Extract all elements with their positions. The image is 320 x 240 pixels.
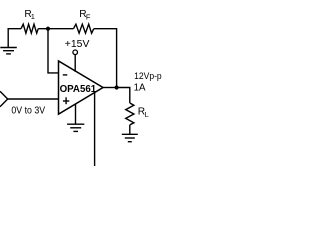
svg-text:12Vp-p: 12Vp-p bbox=[134, 71, 162, 81]
svg-text:F: F bbox=[86, 12, 91, 21]
svg-text:1A: 1A bbox=[134, 83, 146, 94]
input source (0V to 3V) bbox=[0, 91, 8, 106]
ground (load) bbox=[122, 134, 138, 141]
node B (output node) bbox=[115, 85, 119, 89]
resistor RF bbox=[74, 24, 94, 33]
node A (summing junction R1/RF/inverting input) bbox=[46, 27, 50, 31]
resistor RL bbox=[126, 103, 134, 125]
wire (RF right, down to output node) bbox=[94, 29, 117, 86]
svg-text:0V to 3V: 0V to 3V bbox=[11, 105, 45, 116]
ground (left, input divider) bbox=[0, 48, 17, 54]
wire (R1 to node A) bbox=[38, 28, 73, 30]
ground (op-amp negative supply) bbox=[67, 124, 84, 131]
wire (output right and down to RL) bbox=[117, 88, 130, 104]
svg-text:OPA561: OPA561 bbox=[60, 84, 97, 95]
wire (output) bbox=[103, 87, 117, 89]
wire (RL to ground) bbox=[129, 125, 131, 134]
wire (node A down to inverting input) bbox=[48, 29, 58, 73]
svg-text:+15V: +15V bbox=[65, 39, 90, 50]
wire (left ground up and right to R1) bbox=[8, 29, 21, 48]
op-amp U1 OPA561 bbox=[59, 61, 104, 114]
wire (source to non-inverting input) bbox=[8, 98, 59, 100]
svg-text:L: L bbox=[145, 110, 149, 119]
wire (V- pin down) bbox=[75, 104, 77, 124]
svg-text:1: 1 bbox=[31, 12, 35, 21]
resistor R1 bbox=[21, 24, 38, 33]
wire (op-amp bottom pin to edge of figure) bbox=[94, 93, 96, 166]
